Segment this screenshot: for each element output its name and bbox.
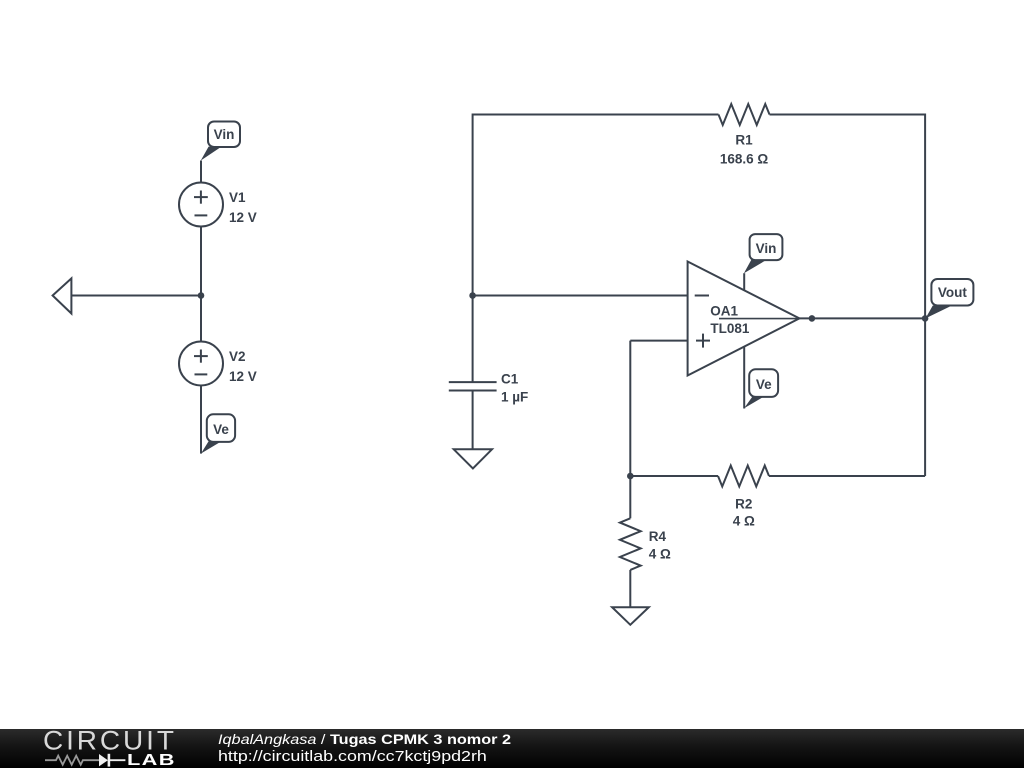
svg-text:4 Ω: 4 Ω (649, 547, 671, 562)
wire inverting input (473, 295, 688, 297)
svg-text:12 V: 12 V (229, 369, 257, 384)
wire Vin flag to V1 top (200, 161, 202, 183)
wire left vertical (472, 114, 474, 383)
svg-text:Vout: Vout (938, 285, 967, 300)
wire op-amp output (799, 317, 925, 319)
svg-text:R4: R4 (649, 529, 667, 544)
wire top left segment (473, 114, 719, 116)
node junction at R4 top (627, 473, 634, 480)
svg-text:TL081: TL081 (710, 321, 750, 336)
svg-text:OA1: OA1 (710, 304, 738, 319)
wire feedback left segment (630, 475, 718, 477)
capacitor C1 (449, 372, 528, 405)
ground under C1 (454, 449, 492, 468)
node flag Ve (op-amp V-) (744, 369, 778, 408)
svg-text:V2: V2 (229, 349, 246, 364)
node flag Vout (926, 279, 974, 318)
voltage source V2 (179, 342, 257, 386)
node junction at output (809, 315, 816, 322)
svg-text:12 V: 12 V (229, 210, 257, 225)
resistor R4 (620, 518, 671, 570)
wire feedback right segment (769, 475, 925, 477)
footer bar (0, 729, 1024, 768)
svg-text:4 Ω: 4 Ω (733, 514, 755, 529)
svg-text:Ve: Ve (213, 422, 229, 437)
wire V- pin (743, 347, 745, 409)
wire node to antenna port (71, 295, 201, 297)
ground under R4 (612, 607, 649, 625)
wire non-inverting input (630, 341, 687, 476)
svg-text:Ve: Ve (756, 377, 772, 392)
svg-text:C1: C1 (501, 372, 519, 387)
resistor R2 (718, 466, 769, 529)
antenna port arrow (53, 278, 72, 313)
svg-text:V1: V1 (229, 190, 246, 205)
wire C1 to ground (472, 391, 474, 450)
wire R4 bottom lead (629, 570, 631, 607)
svg-text:168.6 Ω: 168.6 Ω (720, 152, 769, 167)
voltage source V1 (179, 183, 257, 227)
resistor R1 (719, 104, 770, 167)
op-amp OA1 (688, 262, 800, 376)
CircuitLab logo schematic art (0, 729, 200, 768)
svg-text:1 µF: 1 µF (501, 390, 528, 405)
wire V1 bottom to V2 top (200, 227, 202, 342)
svg-text:Vin: Vin (756, 241, 777, 256)
node flag Vin (op-amp V+) (744, 234, 782, 273)
node junction Vout (922, 315, 929, 322)
footer url line (218, 748, 487, 765)
svg-text:R2: R2 (735, 497, 752, 512)
CircuitLab logo LAB text (127, 752, 176, 770)
node junction at C1 (469, 292, 476, 299)
node junction left (198, 292, 205, 299)
svg-text:Vin: Vin (214, 127, 235, 142)
wire right vertical (924, 114, 926, 477)
footer title line (218, 731, 511, 747)
node flag Vin (left) (201, 122, 240, 161)
wire R4 top lead (629, 476, 631, 518)
wire top right segment (770, 114, 926, 116)
svg-text:R1: R1 (735, 133, 753, 148)
wire V+ pin (743, 273, 745, 290)
node flag Ve (left) (201, 414, 235, 453)
CircuitLab logo wordmark (43, 725, 177, 756)
wire V2 bottom to Ve flag (200, 386, 202, 454)
